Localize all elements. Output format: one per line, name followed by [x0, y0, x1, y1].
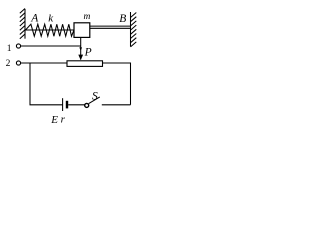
svg-text:S: S: [92, 91, 98, 103]
svg-text:1: 1: [7, 44, 12, 54]
svg-text:m: m: [84, 12, 91, 22]
svg-text:P: P: [84, 47, 92, 59]
svg-text:B: B: [119, 13, 126, 25]
svg-text:A: A: [30, 13, 39, 25]
svg-text:r: r: [61, 114, 66, 126]
svg-text:2: 2: [6, 59, 11, 69]
svg-text:E: E: [50, 114, 58, 126]
